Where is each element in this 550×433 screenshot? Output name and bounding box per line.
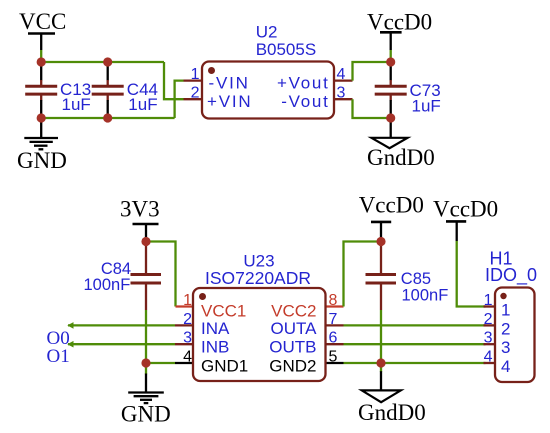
svg-text:4: 4: [501, 357, 510, 376]
svg-text:1: 1: [183, 292, 192, 309]
svg-text:VccD0: VccD0: [359, 193, 424, 218]
svg-text:2: 2: [484, 311, 493, 328]
svg-text:VCC1: VCC1: [201, 302, 246, 321]
svg-text:INA: INA: [201, 319, 230, 338]
svg-text:8: 8: [329, 292, 338, 309]
svg-text:1uF: 1uF: [62, 95, 91, 114]
svg-text:3: 3: [183, 330, 192, 347]
svg-text:6: 6: [329, 330, 338, 347]
svg-text:3: 3: [501, 338, 510, 357]
svg-text:1: 1: [484, 292, 493, 309]
svg-text:ISO7220ADR: ISO7220ADR: [205, 268, 311, 288]
svg-text:-Vout: -Vout: [281, 92, 329, 111]
svg-text:2: 2: [183, 311, 192, 328]
svg-text:VCC2: VCC2: [271, 302, 316, 321]
svg-text:100nF: 100nF: [402, 287, 449, 305]
svg-text:GND: GND: [17, 148, 67, 173]
svg-text:3: 3: [337, 85, 346, 102]
svg-text:GndD0: GndD0: [367, 145, 435, 170]
svg-text:C85: C85: [401, 270, 431, 288]
svg-text:VccD0: VccD0: [433, 197, 498, 222]
svg-text:2: 2: [501, 319, 510, 338]
svg-text:VccD0: VccD0: [367, 10, 432, 35]
svg-text:1uF: 1uF: [412, 96, 441, 115]
svg-text:1: 1: [501, 301, 510, 320]
svg-text:4: 4: [183, 349, 192, 366]
svg-text:GND: GND: [121, 402, 171, 427]
svg-text:OUTB: OUTB: [269, 338, 316, 357]
svg-text:INB: INB: [201, 338, 229, 357]
svg-text:GND2: GND2: [269, 357, 316, 376]
svg-text:100nF: 100nF: [84, 276, 131, 294]
svg-text:OUTA: OUTA: [271, 319, 318, 338]
svg-text:1: 1: [191, 66, 200, 83]
svg-text:+Vout: +Vout: [277, 73, 329, 92]
svg-text:2: 2: [191, 85, 200, 102]
svg-text:3V3: 3V3: [120, 197, 160, 222]
svg-text:GND1: GND1: [201, 357, 248, 376]
svg-text:IDO_0: IDO_0: [485, 265, 537, 286]
svg-text:U2: U2: [256, 23, 278, 42]
svg-text:5: 5: [329, 349, 338, 366]
svg-text:GndD0: GndD0: [358, 400, 426, 425]
svg-text:+VIN: +VIN: [207, 92, 252, 111]
svg-text:3: 3: [484, 330, 493, 347]
svg-text:1uF: 1uF: [128, 95, 157, 114]
svg-text:7: 7: [329, 311, 338, 328]
svg-text:VCC: VCC: [19, 9, 66, 34]
svg-text:-VIN: -VIN: [209, 73, 250, 92]
svg-text:4: 4: [484, 349, 493, 366]
svg-text:B0505S: B0505S: [256, 40, 317, 59]
svg-text:4: 4: [337, 66, 346, 83]
svg-text:O1: O1: [47, 346, 70, 367]
